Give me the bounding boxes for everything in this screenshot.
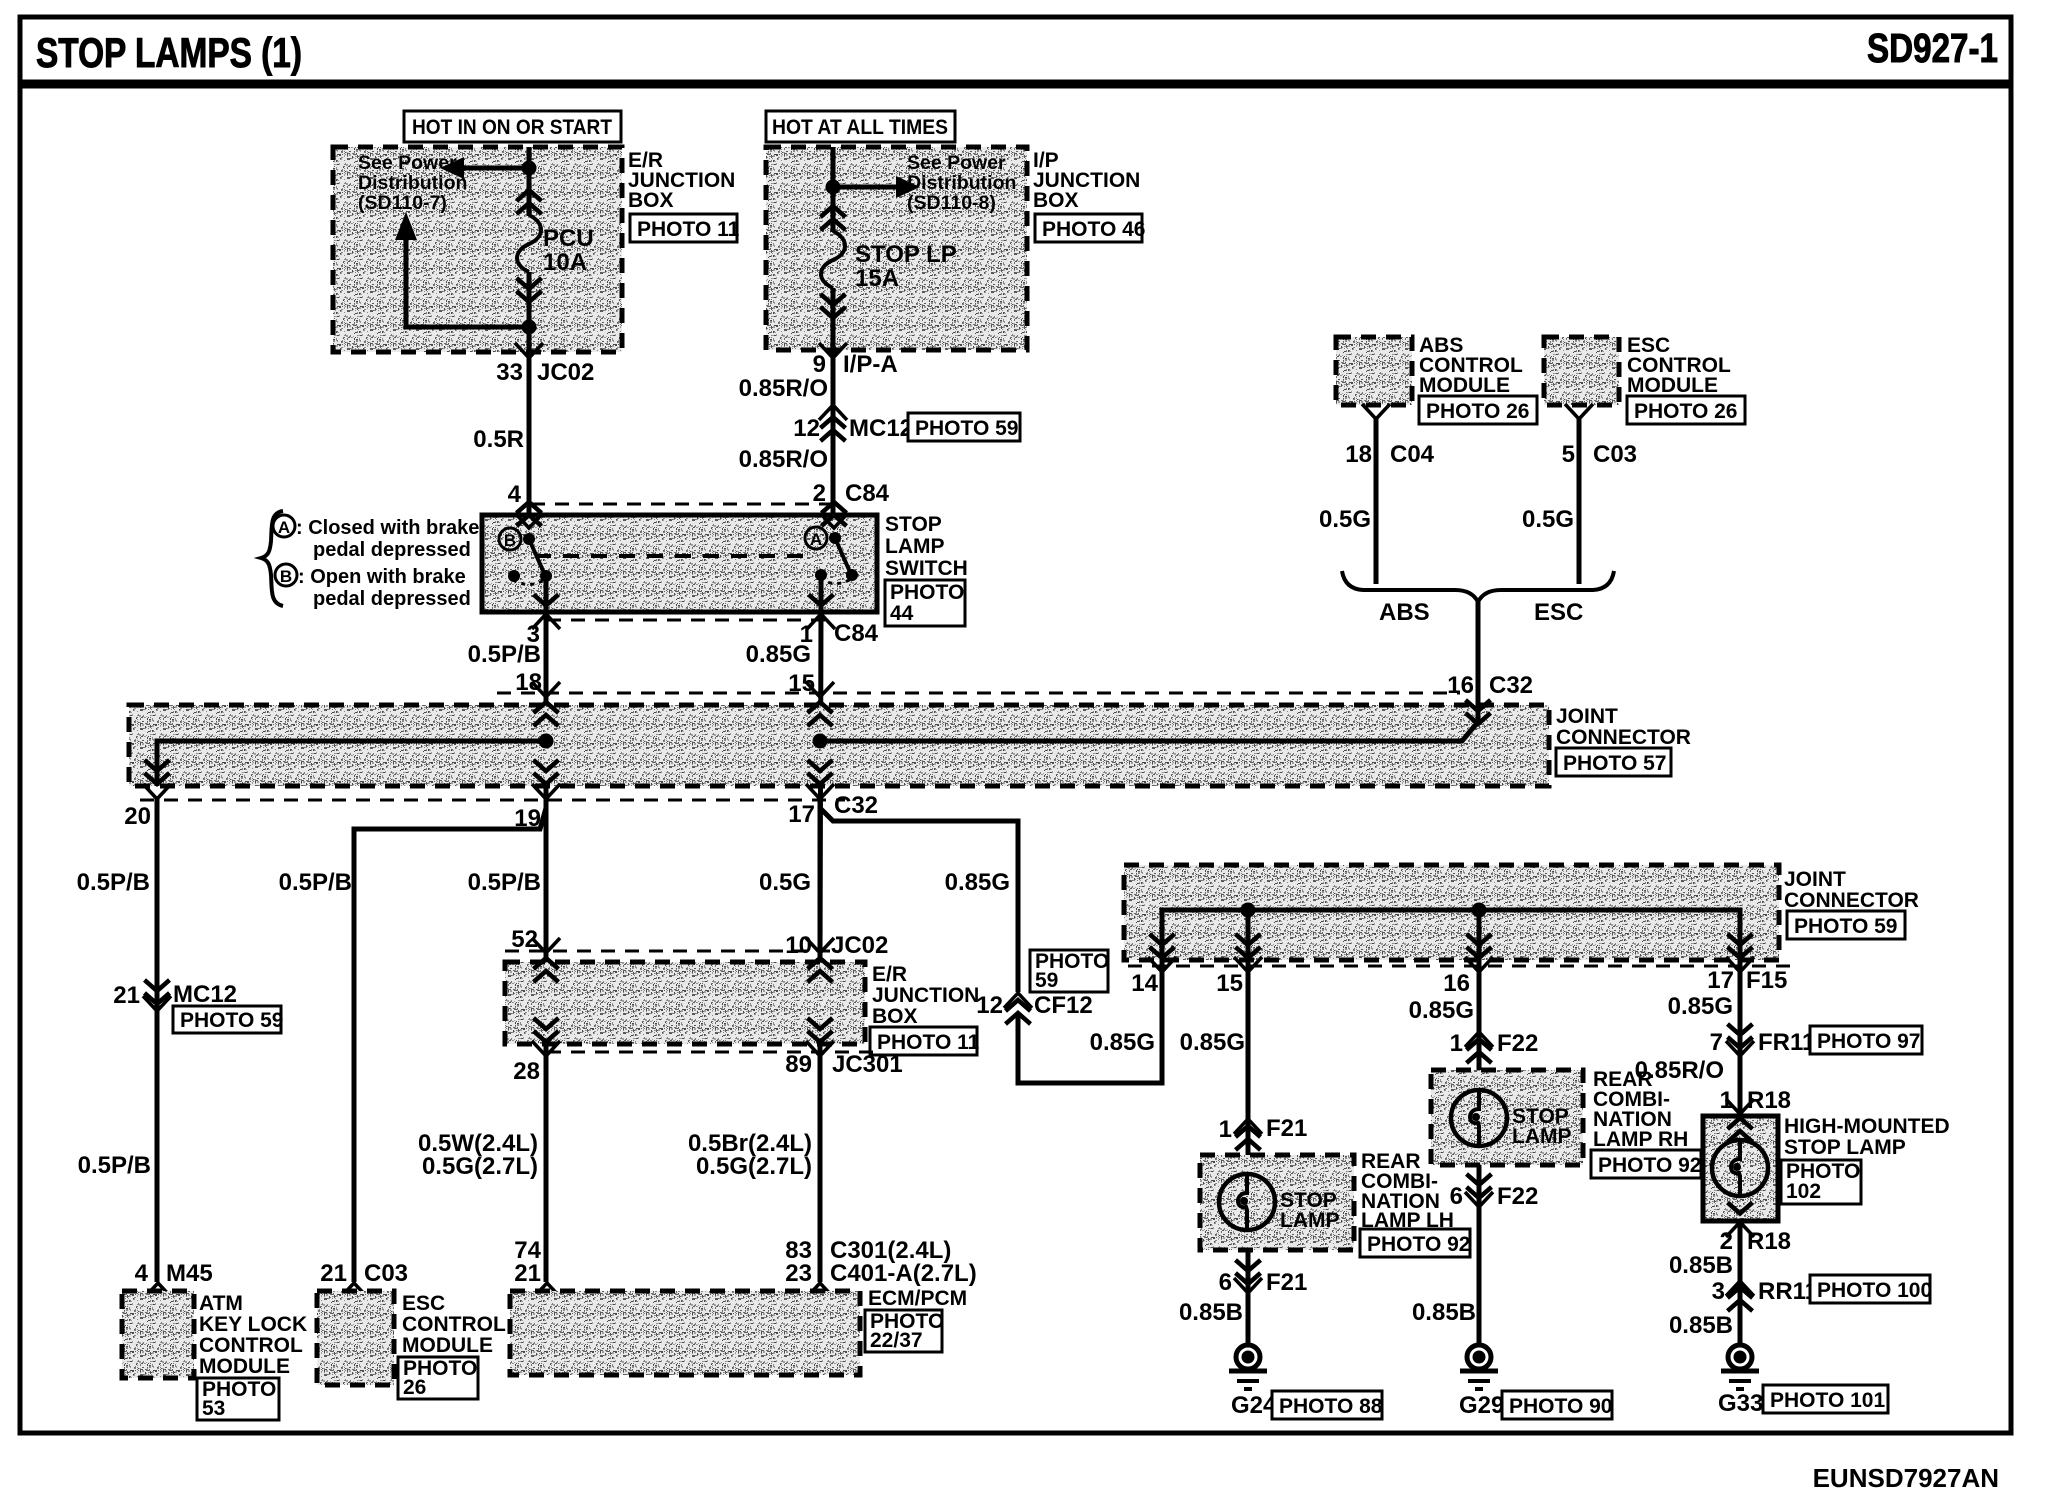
svg-text:0.85G: 0.85G bbox=[746, 641, 811, 668]
svg-text:21: 21 bbox=[113, 982, 140, 1009]
svg-text:0.5P/B: 0.5P/B bbox=[468, 641, 541, 668]
svg-text:17: 17 bbox=[788, 801, 815, 828]
connector 6 F22 bbox=[1467, 1174, 1492, 1198]
node: dot pin15 bbox=[1241, 903, 1256, 918]
wire from C03 bbox=[1577, 419, 1582, 584]
svg-text:0.85G: 0.85G bbox=[1090, 1029, 1155, 1056]
dashed connector row C32 bbox=[497, 692, 1460, 695]
svg-text:B: B bbox=[504, 531, 516, 550]
joint connector box (lower) bbox=[1124, 865, 1779, 960]
svg-text:E/R: E/R bbox=[872, 963, 907, 986]
wire 1 to joint connector bbox=[820, 612, 821, 960]
up arrow feedback path bbox=[406, 240, 529, 327]
wire top to fuse bbox=[831, 147, 836, 232]
svg-text:9: 9 bbox=[813, 351, 826, 378]
switch internal dashed line bbox=[535, 554, 815, 558]
ESC control module box (bottom) bbox=[317, 1291, 394, 1385]
svg-text:17: 17 bbox=[1707, 967, 1734, 994]
bus wire left segment bbox=[157, 741, 546, 786]
svg-text:HOT IN ON OR START: HOT IN ON OR START bbox=[412, 116, 612, 139]
svg-text:PHOTO 59: PHOTO 59 bbox=[180, 1009, 283, 1032]
svg-text:89: 89 bbox=[785, 1051, 812, 1078]
svg-text:PHOTO 57: PHOTO 57 bbox=[1563, 752, 1666, 775]
pin 20 exit connector bbox=[145, 760, 170, 784]
svg-text:0.5G(2.7L): 0.5G(2.7L) bbox=[422, 1153, 538, 1180]
svg-text:18: 18 bbox=[1345, 441, 1372, 468]
svg-text:pedal depressed: pedal depressed bbox=[313, 539, 471, 561]
wire 15 to G24 bbox=[1246, 962, 1251, 1344]
svg-text:JOINT: JOINT bbox=[1784, 868, 1846, 891]
ground G33 bbox=[1721, 1345, 1759, 1389]
svg-text:See Power: See Power bbox=[358, 152, 457, 174]
pin exits with connectors bbox=[1150, 934, 1175, 958]
svg-text:0.85R/O: 0.85R/O bbox=[1635, 1057, 1724, 1084]
connector 12 CF12 bbox=[1004, 993, 1032, 1008]
svg-text:: Closed with brake: : Closed with brake bbox=[296, 517, 479, 539]
svg-text:Distribution: Distribution bbox=[358, 172, 467, 194]
svg-text:F22: F22 bbox=[1497, 1030, 1538, 1057]
svg-text:PHOTO 92: PHOTO 92 bbox=[1367, 1233, 1470, 1256]
bus wire bbox=[1162, 910, 1740, 962]
I/P junction box bbox=[766, 147, 1027, 350]
svg-text:CONNECTOR: CONNECTOR bbox=[1784, 889, 1919, 912]
svg-text:MODULE: MODULE bbox=[1419, 374, 1510, 397]
svg-text:C03: C03 bbox=[364, 1260, 408, 1287]
svg-text:LAMP: LAMP bbox=[885, 535, 945, 558]
svg-text:0.5G(2.7L): 0.5G(2.7L) bbox=[696, 1153, 812, 1180]
svg-text:0.85G: 0.85G bbox=[945, 869, 1010, 896]
svg-text:0.5G: 0.5G bbox=[1319, 506, 1371, 533]
svg-text:C84: C84 bbox=[834, 620, 879, 647]
branch 17 to CF12 wire bbox=[820, 808, 1018, 992]
svg-text:0.85G: 0.85G bbox=[1409, 997, 1474, 1024]
wire CF12 down and right to pin 14 bbox=[1018, 962, 1162, 1083]
dashed connector row JC02 bbox=[505, 950, 830, 953]
svg-text:0.85B: 0.85B bbox=[1669, 1252, 1733, 1279]
dashed connector row C84 top bbox=[531, 503, 833, 506]
svg-text:STOP: STOP bbox=[885, 513, 942, 536]
svg-text:12: 12 bbox=[793, 415, 820, 442]
svg-text:ECM/PCM: ECM/PCM bbox=[868, 1287, 967, 1310]
ESC control module box (top) bbox=[1544, 337, 1619, 405]
svg-text:STOP LP: STOP LP bbox=[855, 241, 957, 268]
ECM/PCM flares bbox=[533, 1283, 561, 1298]
legend text A bbox=[273, 515, 295, 537]
ABS control module box bbox=[1336, 337, 1412, 405]
svg-text:B: B bbox=[280, 567, 292, 586]
svg-text:HIGH-MOUNTED: HIGH-MOUNTED bbox=[1784, 1115, 1950, 1138]
pin 18 C04 bbox=[1362, 404, 1390, 419]
connector 1 F22 bbox=[1465, 1032, 1493, 1047]
svg-text:MODULE: MODULE bbox=[1627, 374, 1718, 397]
pin 52 entry bbox=[532, 938, 560, 953]
svg-text:(SD110-7): (SD110-7) bbox=[358, 192, 447, 214]
svg-text:PHOTO: PHOTO bbox=[890, 581, 964, 604]
svg-text:0.85R/O: 0.85R/O bbox=[739, 375, 828, 402]
rear combination lamp RH box bbox=[1431, 1070, 1583, 1165]
pin 89 JC301 exit bbox=[808, 1018, 833, 1042]
svg-text:F15: F15 bbox=[1746, 967, 1787, 994]
label HOT AT ALL TIMES bbox=[766, 111, 955, 142]
svg-text:0.5R: 0.5R bbox=[473, 426, 524, 453]
svg-text:1: 1 bbox=[1219, 1116, 1232, 1143]
svg-text:21: 21 bbox=[320, 1260, 347, 1287]
svg-text:PHOTO 92: PHOTO 92 bbox=[1598, 1154, 1701, 1177]
pin 4 entry connector bbox=[517, 502, 542, 526]
svg-text:C32: C32 bbox=[834, 792, 878, 819]
svg-text:STOP LAMP: STOP LAMP bbox=[1784, 1136, 1906, 1159]
label HOT IN ON OR START bbox=[404, 111, 621, 142]
merged wire to C32 16 bbox=[1476, 602, 1481, 720]
svg-text:28: 28 bbox=[513, 1058, 540, 1085]
svg-text:LAMP: LAMP bbox=[1280, 1209, 1340, 1232]
svg-text:F22: F22 bbox=[1497, 1183, 1538, 1210]
svg-text:PHOTO 59: PHOTO 59 bbox=[915, 417, 1018, 440]
svg-text:14: 14 bbox=[1131, 970, 1158, 997]
svg-text:EUNSD7927AN: EUNSD7927AN bbox=[1813, 1463, 1999, 1493]
arrow to see power distribution bbox=[462, 166, 529, 171]
E/R junction box 2 bbox=[505, 962, 865, 1044]
wire 16 to G29 bbox=[1477, 962, 1482, 1344]
svg-text:ESC: ESC bbox=[1534, 599, 1583, 626]
svg-text:Distribution: Distribution bbox=[907, 172, 1016, 194]
svg-text:LAMP RH: LAMP RH bbox=[1593, 1128, 1688, 1151]
svg-text:0.5P/B: 0.5P/B bbox=[77, 869, 150, 896]
rear combination lamp LH box bbox=[1200, 1155, 1354, 1250]
svg-text:0.85G: 0.85G bbox=[1180, 1029, 1245, 1056]
svg-text:0.85B: 0.85B bbox=[1412, 1299, 1476, 1326]
svg-text:JUNCTION: JUNCTION bbox=[872, 984, 979, 1007]
svg-text:PCU: PCU bbox=[543, 225, 594, 252]
node: dot pin16 bbox=[1472, 903, 1487, 918]
svg-text:15A: 15A bbox=[855, 265, 899, 292]
wire 19 down through E/R box bbox=[544, 799, 549, 1282]
contact A circled letter bbox=[805, 527, 827, 549]
svg-text:23: 23 bbox=[785, 1260, 812, 1287]
svg-text:10: 10 bbox=[785, 932, 812, 959]
pin 28 exit bbox=[534, 1018, 559, 1042]
svg-text:A: A bbox=[278, 518, 290, 537]
svg-text:0.5G: 0.5G bbox=[759, 869, 811, 896]
connector 6 F21 bbox=[1236, 1260, 1261, 1284]
switch A contacts and blade bbox=[829, 532, 841, 544]
svg-text:4: 4 bbox=[508, 481, 522, 508]
svg-text:12: 12 bbox=[976, 992, 1003, 1019]
svg-text:33: 33 bbox=[496, 359, 523, 386]
fuse PCU 10A bbox=[517, 190, 542, 214]
pin 2 entry connector bbox=[822, 502, 847, 526]
svg-text:PHOTO 59: PHOTO 59 bbox=[1794, 915, 1897, 938]
node: junction dot bbox=[522, 161, 537, 176]
svg-text:STOP LAMPS (1): STOP LAMPS (1) bbox=[36, 29, 302, 76]
svg-text:PHOTO 97: PHOTO 97 bbox=[1817, 1030, 1920, 1053]
joint connector box (upper) bbox=[129, 705, 1549, 786]
svg-text:BOX: BOX bbox=[1033, 189, 1079, 212]
pin 1 exit bbox=[819, 575, 824, 612]
svg-text:26: 26 bbox=[403, 1376, 426, 1399]
svg-text:102: 102 bbox=[1786, 1180, 1821, 1203]
node: junction dot bbox=[522, 320, 537, 335]
svg-text:I/P-A: I/P-A bbox=[843, 351, 898, 378]
svg-text:0.85B: 0.85B bbox=[1669, 1312, 1733, 1339]
lamp symbol RH bbox=[1451, 1090, 1507, 1146]
svg-text:F21: F21 bbox=[1266, 1269, 1307, 1296]
bus wire right segment bbox=[820, 722, 1478, 741]
node: dot pin15 bbox=[813, 734, 828, 749]
pin 18 entry connector bbox=[532, 682, 560, 697]
svg-text:MODULE: MODULE bbox=[199, 1355, 290, 1378]
svg-text:SWITCH: SWITCH bbox=[885, 557, 968, 580]
svg-text:G29: G29 bbox=[1459, 1392, 1504, 1419]
svg-text:C401-A(2.7L): C401-A(2.7L) bbox=[830, 1260, 977, 1287]
svg-text:C84: C84 bbox=[845, 480, 890, 507]
wire 17 down through E/R box bbox=[818, 799, 823, 1282]
svg-text:HOT AT ALL TIMES: HOT AT ALL TIMES bbox=[772, 116, 948, 139]
svg-text:CF12: CF12 bbox=[1034, 992, 1093, 1019]
wire pin20 down to MC12 bbox=[155, 799, 160, 1282]
svg-text:C32: C32 bbox=[1489, 672, 1533, 699]
svg-text:: Open with brake: : Open with brake bbox=[298, 566, 466, 588]
node: junction dot bbox=[826, 180, 841, 195]
svg-text:KEY LOCK: KEY LOCK bbox=[199, 1313, 307, 1336]
pin 10 JC02 entry bbox=[806, 938, 834, 953]
svg-text:4: 4 bbox=[135, 1260, 149, 1287]
svg-text:ABS: ABS bbox=[1379, 599, 1430, 626]
svg-text:JC02: JC02 bbox=[537, 359, 594, 386]
svg-text:LAMP: LAMP bbox=[1512, 1125, 1572, 1148]
svg-text:JOINT: JOINT bbox=[1556, 705, 1618, 728]
wire from box top to fuse bbox=[527, 147, 532, 216]
svg-text:G24: G24 bbox=[1231, 1392, 1277, 1419]
svg-text:3: 3 bbox=[1712, 1278, 1725, 1305]
dashed connector row C84 bottom bbox=[547, 619, 834, 622]
svg-text:16: 16 bbox=[1443, 970, 1470, 997]
pin 15 entry connector bbox=[806, 682, 834, 697]
svg-text:21: 21 bbox=[514, 1260, 541, 1287]
svg-text:CONTROL: CONTROL bbox=[199, 1334, 303, 1357]
svg-text:C04: C04 bbox=[1390, 441, 1435, 468]
wire 3 to joint connector bbox=[544, 612, 549, 962]
connector 7 FR11 bbox=[1728, 1024, 1753, 1048]
connector 33 JC02 exit bbox=[515, 343, 543, 358]
svg-text:0.85B: 0.85B bbox=[1179, 1299, 1243, 1326]
pin 17 exit connector bbox=[808, 760, 833, 784]
arrow to see power distribution (right) bbox=[833, 185, 898, 190]
svg-text:44: 44 bbox=[890, 602, 914, 625]
ground G29 bbox=[1460, 1345, 1498, 1389]
svg-text:59: 59 bbox=[1035, 969, 1058, 992]
svg-text:20: 20 bbox=[124, 803, 151, 830]
svg-text:1: 1 bbox=[1450, 1030, 1463, 1057]
dashed row F15 bbox=[1128, 965, 1800, 968]
svg-text:See Power: See Power bbox=[907, 152, 1006, 174]
svg-text:PHOTO 101: PHOTO 101 bbox=[1770, 1389, 1885, 1412]
svg-text:5: 5 bbox=[1562, 441, 1575, 468]
lamp symbol LH bbox=[1219, 1174, 1275, 1230]
connector 1 F21 bbox=[1234, 1119, 1262, 1134]
legend brace bbox=[261, 511, 283, 606]
wire fuse to switch bbox=[831, 288, 836, 516]
legend text B bbox=[275, 564, 297, 586]
svg-text:0.5P/B: 0.5P/B bbox=[78, 1152, 151, 1179]
fuse STOP LP 15A bbox=[821, 206, 846, 230]
svg-text:M45: M45 bbox=[166, 1260, 213, 1287]
branch from 19 to x354 bbox=[354, 808, 546, 1282]
svg-text:R18: R18 bbox=[1747, 1228, 1791, 1255]
svg-text:PHOTO 90: PHOTO 90 bbox=[1509, 1395, 1612, 1418]
ground G24 bbox=[1229, 1345, 1267, 1389]
connector 21 MC12 bbox=[145, 980, 170, 1004]
ECM/PCM box bbox=[510, 1291, 860, 1375]
svg-text:PHOTO 26: PHOTO 26 bbox=[1634, 400, 1737, 423]
dashed row JC301 bbox=[547, 1051, 880, 1054]
svg-text:0.5P/B: 0.5P/B bbox=[279, 869, 352, 896]
svg-text:MC12: MC12 bbox=[173, 981, 237, 1008]
dashed row below joint connector bbox=[140, 799, 845, 802]
svg-text:22/37: 22/37 bbox=[870, 1329, 923, 1352]
contact B circled letter bbox=[499, 528, 521, 550]
svg-text:A: A bbox=[810, 530, 822, 549]
svg-text:SD927-1: SD927-1 bbox=[1867, 25, 1998, 71]
svg-text:15: 15 bbox=[1216, 970, 1243, 997]
wire from C04 bbox=[1374, 419, 1379, 584]
svg-text:10A: 10A bbox=[543, 249, 587, 276]
ATM key lock control module box bbox=[122, 1291, 194, 1378]
wire fuse to box bottom bbox=[527, 272, 532, 515]
svg-text:53: 53 bbox=[202, 1397, 225, 1420]
svg-text:pedal depressed: pedal depressed bbox=[313, 588, 471, 610]
pin 3 exit bbox=[544, 576, 549, 612]
svg-text:MODULE: MODULE bbox=[402, 1334, 493, 1357]
lamp symbol HMSL bbox=[1712, 1140, 1768, 1196]
svg-text:6: 6 bbox=[1219, 1269, 1232, 1296]
svg-text:ATM: ATM bbox=[199, 1292, 243, 1315]
merge brace ABS/ESC bbox=[1342, 571, 1614, 602]
svg-text:BOX: BOX bbox=[628, 189, 674, 212]
svg-text:0.85G: 0.85G bbox=[1668, 993, 1733, 1020]
svg-text:MC12: MC12 bbox=[849, 415, 913, 442]
pin 19 exit connector bbox=[534, 760, 559, 784]
svg-text:JC02: JC02 bbox=[831, 932, 888, 959]
svg-text:C03: C03 bbox=[1593, 441, 1637, 468]
node: dot pin18 bbox=[539, 734, 554, 749]
svg-text:(SD110-8): (SD110-8) bbox=[907, 192, 996, 214]
svg-text:0.85R/O: 0.85R/O bbox=[739, 446, 828, 473]
switch B contacts and blade bbox=[523, 533, 535, 545]
svg-text:PHOTO 11: PHOTO 11 bbox=[637, 218, 740, 241]
svg-text:PHOTO 46: PHOTO 46 bbox=[1042, 218, 1145, 241]
svg-text:6: 6 bbox=[1450, 1183, 1463, 1210]
svg-text:0.5P/B: 0.5P/B bbox=[468, 869, 541, 896]
svg-text:BOX: BOX bbox=[872, 1005, 918, 1028]
pin 5 C03 bbox=[1565, 404, 1593, 419]
svg-text:JC301: JC301 bbox=[832, 1051, 903, 1078]
connector 9 I/P-A exit bbox=[819, 343, 847, 358]
wire 17 to G33 bbox=[1738, 962, 1743, 1345]
svg-text:PHOTO 88: PHOTO 88 bbox=[1279, 1395, 1383, 1418]
svg-text:16: 16 bbox=[1447, 672, 1474, 699]
E/R junction box (power) bbox=[333, 147, 622, 352]
svg-text:ESC: ESC bbox=[402, 1292, 445, 1315]
svg-text:FR11: FR11 bbox=[1758, 1029, 1815, 1056]
svg-text:CONTROL: CONTROL bbox=[402, 1313, 506, 1336]
svg-text:G33: G33 bbox=[1718, 1390, 1763, 1417]
svg-text:F21: F21 bbox=[1266, 1115, 1307, 1142]
svg-text:PHOTO 100: PHOTO 100 bbox=[1817, 1279, 1932, 1302]
svg-text:CONNECTOR: CONNECTOR bbox=[1556, 726, 1691, 749]
high-mounted stop lamp box bbox=[1703, 1116, 1778, 1221]
connector 12 MC12 bbox=[819, 405, 847, 420]
svg-text:PHOTO 26: PHOTO 26 bbox=[1426, 400, 1529, 423]
connector 3 RR11 bbox=[1726, 1281, 1754, 1296]
svg-text:0.5G: 0.5G bbox=[1522, 506, 1574, 533]
svg-text:52: 52 bbox=[511, 926, 538, 953]
stop lamp switch box bbox=[482, 515, 877, 612]
svg-text:2: 2 bbox=[1720, 1228, 1733, 1255]
svg-text:7: 7 bbox=[1710, 1029, 1723, 1056]
